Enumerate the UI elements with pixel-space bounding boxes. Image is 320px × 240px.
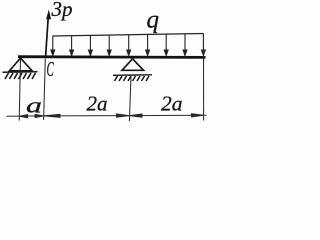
support B hatching	[115, 76, 150, 81]
svg-text:2a: 2a	[87, 92, 108, 116]
dimension line 2a right	[129, 114, 206, 118]
dimension line a	[7, 114, 44, 118]
support B ground line	[113, 74, 152, 77]
support A hatching	[5, 73, 36, 79]
extension line at C	[44, 59, 46, 121]
support A ground line	[3, 71, 38, 74]
extension line at right end	[203, 34, 205, 121]
distributed load arrows q	[51, 34, 205, 56]
svg-text:2a: 2a	[161, 92, 183, 116]
force arrow 3P	[46, 10, 52, 57]
beam	[18, 55, 206, 59]
svg-text:C: C	[47, 57, 55, 81]
svg-text:3p: 3p	[51, 0, 73, 21]
svg-text:q: q	[147, 7, 160, 34]
svg-text:a: a	[26, 93, 42, 117]
distributed load top line	[53, 34, 204, 37]
roller support B triangle	[122, 59, 144, 71]
dimension line 2a left	[43, 114, 129, 117]
extension line at A	[19, 59, 20, 121]
extension line at B	[129, 76, 131, 121]
pin support A triangle	[10, 58, 33, 71]
